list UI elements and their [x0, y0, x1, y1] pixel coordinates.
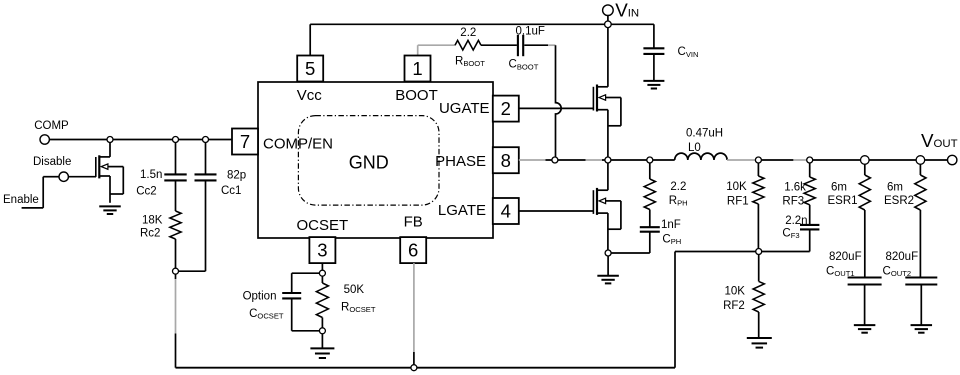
- svg-text:18K: 18K: [142, 214, 163, 226]
- wire: RF2 top: [758, 254, 760, 281]
- resistor RBOOT: [455, 27, 485, 68]
- wire: COMP line: [49, 139, 232, 141]
- capacitor Cc2: [136, 140, 187, 212]
- ground (CVIN): [643, 81, 664, 89]
- IC pin name BOOT: [395, 87, 438, 104]
- pin 3 (OCSET): [309, 237, 335, 263]
- pin 8 (PHASE): [493, 147, 519, 173]
- svg-text:1.5n: 1.5n: [140, 169, 162, 181]
- svg-text:1nF: 1nF: [661, 219, 681, 231]
- svg-text:1.6k: 1.6k: [784, 181, 806, 193]
- svg-text:6m: 6m: [831, 181, 847, 193]
- svg-text:FB: FB: [404, 213, 423, 230]
- node: OCSET top node: [319, 270, 325, 276]
- svg-text:UGATE: UGATE: [439, 100, 490, 117]
- ground (Q2 source): [597, 276, 619, 284]
- svg-text:Vcc: Vcc: [297, 87, 323, 104]
- svg-text:10K: 10K: [726, 181, 747, 193]
- svg-text:0.47uH: 0.47uH: [686, 127, 723, 139]
- svg-text:ESR1: ESR1: [828, 195, 858, 207]
- resistor RF3: [782, 177, 815, 207]
- wire: FB pin 6 drop: [413, 263, 415, 368]
- wire: Vcc pin 5 riser: [309, 24, 311, 55]
- svg-text:Cc1: Cc1: [221, 185, 241, 197]
- terminal Disable: [33, 156, 71, 181]
- resistor ESR2: [884, 175, 926, 210]
- transistor Q1 (high-side): [593, 85, 621, 126]
- node: phase junction (CBOOT): [552, 157, 558, 163]
- svg-text:2: 2: [501, 98, 511, 119]
- resistor ESR1: [828, 175, 871, 210]
- IC pin name Vcc: [297, 87, 323, 104]
- wire: FB node to CF3: [762, 230, 810, 252]
- node: output junction (RF3): [807, 157, 813, 163]
- pin 7 (COMP/EN): [232, 129, 258, 155]
- IC pin name PHASE: [435, 153, 486, 170]
- wire: Cc1 to comp-node: [178, 270, 205, 272]
- svg-text:8: 8: [501, 150, 511, 171]
- svg-text:ESR2: ESR2: [884, 195, 914, 207]
- wire: RPH to CPH: [649, 210, 651, 228]
- wire: Enable stub: [3, 177, 59, 208]
- transistor Q3 (disable FET): [96, 155, 124, 194]
- resistor ROCSET: [316, 276, 375, 328]
- wire: output rail: [727, 159, 952, 161]
- wire: RF2 ground stem: [758, 312, 760, 338]
- ground (OCSET): [310, 348, 334, 358]
- resistor RF2: [723, 281, 764, 312]
- capacitor CBOOT: [509, 25, 545, 71]
- wire: Q1 drain to VIN: [607, 24, 609, 87]
- capacitor CVIN: [643, 46, 698, 81]
- capacitor CF3: [782, 205, 819, 240]
- node: phase junction (FETs): [605, 157, 611, 163]
- svg-text:820uF: 820uF: [886, 251, 919, 263]
- wire: Q2 source ground stem: [607, 256, 609, 276]
- svg-text:Cc2: Cc2: [136, 185, 156, 197]
- IC pin name LGATE: [438, 202, 486, 219]
- resistor RPH: [644, 179, 687, 210]
- node: output junction (RF1): [755, 157, 761, 163]
- svg-text:OCSET: OCSET: [296, 217, 348, 234]
- node: phase junction (snubber): [647, 157, 653, 163]
- svg-text:2.2n: 2.2n: [785, 215, 807, 227]
- svg-text:RF2: RF2: [723, 300, 745, 312]
- svg-text:4: 4: [501, 201, 511, 222]
- resistor RF1: [726, 176, 764, 207]
- IC U1 body: [258, 82, 493, 238]
- wire: RBOOT to CBOOT: [481, 44, 517, 46]
- svg-text:GND: GND: [349, 153, 389, 173]
- IC pin name UGATE: [439, 100, 490, 117]
- resistor Rc2: [140, 211, 181, 239]
- svg-text:L0: L0: [688, 142, 701, 154]
- wire: ESR1 top: [864, 160, 866, 175]
- wire: Q2 drain to phase: [607, 160, 609, 190]
- transistor Q2 (low-side): [593, 188, 621, 229]
- ground (COUT1): [854, 325, 876, 333]
- svg-text:PHASE: PHASE: [435, 153, 486, 170]
- capacitor Cc1: [195, 140, 247, 272]
- wire: OCSET to COCSET: [292, 273, 320, 292]
- svg-text:5: 5: [305, 58, 315, 79]
- pin 1 (BOOT): [405, 56, 431, 82]
- wire: ESR1 to COUT1: [864, 210, 866, 277]
- wire: ESR2 top: [919, 160, 921, 175]
- wire: comp node drop to FB rail: [175, 274, 177, 368]
- pin 6 (FB): [400, 237, 426, 263]
- node: output junction (ESR2): [916, 156, 925, 165]
- svg-text:6: 6: [408, 240, 418, 261]
- pin 4 (LGATE): [493, 198, 519, 224]
- node: feedback node: [756, 249, 762, 255]
- svg-text:820uF: 820uF: [829, 251, 862, 263]
- svg-text:COMP/EN: COMP/EN: [263, 135, 333, 152]
- pin 2 (UGATE): [493, 96, 519, 122]
- svg-text:2.2: 2.2: [460, 27, 476, 39]
- svg-text:Option: Option: [243, 290, 277, 302]
- svg-text:7: 7: [240, 131, 250, 152]
- ground (COUT2): [911, 325, 933, 333]
- wire: top VIN rail: [310, 23, 654, 25]
- svg-text:1: 1: [412, 58, 422, 79]
- node: compensation bottom node: [173, 268, 179, 274]
- wire: CBOOT to phase (with hop over UGATE): [524, 45, 561, 157]
- IC pin name FB: [404, 213, 423, 230]
- wire: pin 3 stub: [321, 263, 323, 270]
- wire: RF1 top: [757, 160, 759, 176]
- node: COMP-Q3 junction: [107, 137, 113, 143]
- svg-text:RF1: RF1: [727, 195, 749, 207]
- wire: FB rail riser: [675, 252, 756, 368]
- terminal VIN: [603, 0, 640, 20]
- svg-text:3: 3: [317, 240, 327, 261]
- svg-text:COMP: COMP: [34, 120, 69, 132]
- IC pin name COMP/EN: [263, 135, 333, 152]
- node: VIN junction: [605, 21, 612, 28]
- node: FB rail junction: [411, 365, 417, 371]
- wire: snubber drop: [649, 160, 651, 179]
- wire: Q1 source to phase: [607, 110, 609, 160]
- wire: Q2 source down: [607, 213, 609, 250]
- wire: LGATE to Q2 gate: [519, 210, 594, 212]
- wire: BOOT pin 1 riser: [418, 45, 455, 55]
- IC pin name OCSET: [296, 217, 348, 234]
- wire: Q3 source to ground: [109, 176, 111, 203]
- wire: Disable to Q3 gate: [68, 176, 96, 178]
- node: output junction (ESR1): [861, 156, 870, 165]
- svg-text:BOOT: BOOT: [395, 87, 438, 104]
- terminal VIN stem: [607, 15, 609, 24]
- terminal COMP: [34, 120, 69, 144]
- capacitor COCSET: [243, 290, 320, 331]
- inductor L0: [675, 127, 727, 160]
- svg-text:Enable: Enable: [3, 194, 39, 206]
- IC internal GND region: [298, 116, 439, 206]
- svg-text:Rc2: Rc2: [140, 227, 160, 239]
- wire: CPH to Q2 source node: [611, 252, 650, 254]
- svg-text:LGATE: LGATE: [438, 202, 486, 219]
- capacitor COUT2: [883, 251, 938, 325]
- wire: RF1 to FB node: [757, 204, 759, 252]
- svg-text:2.2: 2.2: [670, 181, 686, 193]
- svg-text:RF3: RF3: [782, 195, 804, 207]
- wire: CVIN drop: [653, 24, 655, 48]
- node: OCSET bottom node: [319, 328, 325, 334]
- wire: UGATE to Q1 gate: [519, 107, 594, 109]
- wire: OCSET ground stem: [321, 334, 323, 349]
- wire: Rc2 to comp-node: [175, 239, 177, 268]
- wire: RF3 top: [809, 160, 811, 177]
- svg-text:6m: 6m: [887, 181, 903, 193]
- capacitor CPH: [640, 219, 681, 253]
- svg-text:82p: 82p: [227, 169, 246, 181]
- ground (RF2): [747, 338, 772, 348]
- svg-text:10K: 10K: [725, 285, 746, 297]
- node: Cc1 junction: [203, 137, 209, 143]
- wire: Q3 drain to COMP: [109, 140, 111, 157]
- pin 5 (Vcc): [297, 56, 323, 82]
- svg-text:Disable: Disable: [33, 156, 71, 168]
- node: Q2 source node: [605, 250, 611, 256]
- svg-text:50K: 50K: [344, 284, 365, 296]
- wire: ESR2 to COUT2: [919, 210, 921, 277]
- node: Cc2 junction: [173, 137, 179, 143]
- ground (Q3): [99, 206, 121, 214]
- wire: bottom FB rail: [176, 367, 676, 369]
- svg-text:0.1uF: 0.1uF: [516, 25, 545, 37]
- terminal VOUT: [921, 130, 958, 165]
- wire: phase rail (pin 8 to inductor): [519, 159, 675, 161]
- capacitor COUT1: [826, 251, 882, 325]
